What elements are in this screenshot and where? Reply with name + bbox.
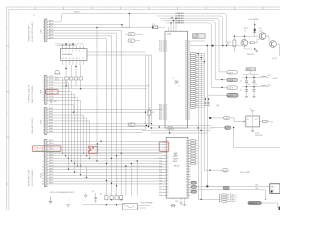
svg-text:R8: R8 [196, 57, 198, 59]
IC801 option star mark [173, 78, 181, 88]
resistor array column right of IC801 [191, 53, 205, 109]
svg-text:56: 56 [186, 171, 188, 173]
IC802 body [166, 137, 188, 198]
svg-text:88: 88 [185, 51, 187, 53]
svg-text:4.7k: 4.7k [152, 24, 155, 26]
svg-text:12: 12 [166, 113, 168, 115]
svg-text:88: 88 [185, 57, 187, 59]
svg-text:(C-05): (C-05) [272, 58, 277, 60]
capacitor C102 vertical with plates [253, 74, 256, 90]
svg-text:R3: R3 [100, 194, 102, 196]
wires center verticals to bottom block [126, 161, 137, 196]
svg-text:31: 31 [167, 164, 169, 166]
wire from block down with arrow [265, 190, 266, 201]
svg-text:5: 5 [43, 33, 44, 35]
svg-text:V.OUT: V.OUT [49, 90, 54, 92]
IC802 internal label [173, 156, 180, 168]
svg-text:RGB.I: RGB.I [49, 117, 54, 119]
svg-text:31: 31 [167, 192, 169, 194]
svg-text:FL: FL [133, 207, 135, 209]
svg-text:P10: P10 [159, 49, 162, 51]
svg-text:56: 56 [186, 166, 188, 168]
svg-text:31: 31 [167, 161, 169, 163]
svg-text:D11: D11 [259, 28, 262, 30]
svg-text:P10: P10 [159, 47, 162, 49]
svg-text:38024: 38024 [173, 161, 178, 163]
svg-text:8: 8 [43, 129, 44, 131]
IC801 body [165, 31, 188, 128]
svg-text:12: 12 [166, 107, 168, 109]
bottom block text labels [92, 191, 116, 196]
voltage regulator IC101 box [246, 116, 259, 127]
junction dots bottom block [106, 199, 122, 205]
svg-text:12: 12 [166, 105, 168, 107]
svg-text:V.OUT: V.OUT [49, 76, 54, 78]
svg-text:10k: 10k [227, 44, 230, 46]
bottom block resistor boxes row [105, 196, 123, 200]
svg-text:2: 2 [43, 24, 44, 26]
svg-text:56: 56 [186, 195, 188, 197]
wires IC600 right to center verticals [87, 51, 146, 53]
crystal circuit below IC802 [170, 204, 176, 206]
bottom block horizontal wire [83, 204, 126, 206]
svg-text:56: 56 [186, 184, 188, 186]
svg-text:88: 88 [185, 61, 187, 63]
svg-text:56: 56 [186, 174, 188, 176]
dark wire-to label bar [248, 202, 278, 209]
svg-text:88: 88 [185, 47, 187, 49]
resistor R104 vertical [227, 36, 236, 52]
svg-text:R8: R8 [196, 81, 198, 83]
svg-text:V.OUT: V.OUT [49, 99, 54, 101]
svg-text:1k: 1k [244, 30, 246, 32]
svg-text:10: 10 [42, 167, 44, 169]
IC801 internal pin numbers right column [185, 41, 187, 121]
svg-text:DWG 2: DWG 2 [193, 37, 199, 39]
pill connector C-05 row1 [219, 71, 237, 75]
svg-text:IC101: IC101 [255, 133, 259, 135]
svg-text:V.OUT: V.OUT [49, 96, 54, 98]
svg-text:2: 2 [43, 112, 44, 114]
svg-text:6: 6 [79, 50, 80, 52]
svg-text:F: F [110, 194, 111, 196]
diode D11 label [259, 28, 263, 32]
svg-text:88: 88 [185, 119, 187, 121]
red highlight box center [89, 146, 98, 153]
svg-text:88: 88 [185, 43, 187, 45]
svg-text:E: E [115, 194, 116, 196]
svg-text:3: 3 [43, 147, 44, 149]
svg-text:31: 31 [167, 186, 169, 188]
svg-text:R8: R8 [196, 69, 198, 71]
svg-text:(155): (155) [259, 30, 263, 32]
svg-text:88: 88 [185, 59, 187, 61]
wires CN9 long horizontals to center [49, 108, 163, 110]
svg-text:31: 31 [167, 181, 169, 183]
svg-text:88: 88 [185, 109, 187, 111]
svg-text:31: 31 [167, 175, 169, 177]
svg-text:12: 12 [166, 111, 168, 113]
svg-text:88: 88 [185, 49, 187, 51]
svg-text:IC801: IC801 [167, 34, 171, 36]
ground symbols filter area [245, 97, 255, 98]
svg-text:2SD2444: 2SD2444 [247, 54, 254, 56]
svg-text:11: 11 [72, 58, 74, 60]
svg-text:12: 12 [166, 119, 168, 121]
bottom block ground and plus symbols [84, 193, 87, 202]
svg-text:88: 88 [185, 67, 187, 69]
svg-text:HD64F: HD64F [173, 159, 178, 161]
wire IC801 top pin stubs to rails [168, 27, 170, 31]
connector CN9 pins and labels [43, 108, 54, 134]
svg-text:56: 56 [186, 143, 188, 145]
svg-text:88: 88 [185, 53, 187, 55]
IC802 bottom pin wires and ground [175, 198, 186, 206]
wires transistor bias network [234, 36, 280, 57]
svg-text:IN: IN [247, 119, 249, 121]
svg-text:(2SD1225): (2SD1225) [255, 135, 263, 137]
pill connector C-08 [204, 169, 228, 173]
wires CN9 pins staircase to bus [49, 115, 91, 159]
dark junction square on pin row 2 [212, 45, 214, 47]
junction dots on pin2 net [152, 27, 153, 28]
inductor L101 [261, 75, 271, 77]
svg-text:31: 31 [167, 167, 169, 169]
svg-text:KS0: KS0 [159, 186, 162, 188]
svg-text:88: 88 [185, 69, 187, 71]
svg-text:88: 88 [185, 107, 187, 109]
svg-text:11: 11 [42, 170, 44, 172]
svg-text:5V: 5V [250, 108, 252, 110]
capacitor pair to ground below bus [204, 98, 210, 106]
svg-text:56: 56 [186, 145, 188, 147]
svg-text:R8: R8 [196, 93, 198, 95]
svg-text:OUT: OUT [255, 119, 258, 121]
svg-text:9: 9 [79, 58, 80, 60]
svg-text:15: 15 [42, 181, 44, 183]
wire top rail 4 with corner down [163, 21, 215, 80]
drawing border outer frame [7, 7, 281, 210]
svg-text:88: 88 [185, 91, 187, 93]
resistor array row R611-R614 [65, 77, 83, 80]
filter wires horizontals [243, 74, 262, 87]
svg-text:KS0: KS0 [159, 189, 162, 191]
svg-text:(+B DOME): (+B DOME) [249, 19, 259, 21]
connector CN10 body [44, 140, 47, 187]
diode D11 [253, 30, 256, 33]
connector ref text right edge [272, 58, 278, 80]
svg-text:R8: R8 [196, 53, 198, 55]
svg-text:C-06: C-06 [224, 118, 228, 120]
wire CN6 pin2 to resistor R106 net [49, 25, 151, 28]
pill connector C-09 hatched [208, 186, 229, 190]
IC802 left pin stubs and labels [163, 141, 169, 197]
svg-text:R8: R8 [196, 101, 198, 103]
svg-text:NOTE: WITH NAVIGATION SYS: NOTE: WITH NAVIGATION SYS [50, 191, 75, 194]
wires from filter box right [138, 205, 151, 207]
svg-text:P10: P10 [159, 43, 162, 45]
svg-text:14: 14 [62, 58, 64, 60]
ground symbol below CN10 [49, 197, 53, 204]
IC802 left outside labels [159, 158, 162, 197]
wires CN10 pins to IC801 left pins [49, 142, 163, 153]
svg-text:88: 88 [185, 101, 187, 103]
svg-text:56: 56 [186, 140, 188, 142]
svg-text:3: 3 [43, 83, 44, 85]
svg-text:1: 1 [43, 141, 44, 143]
svg-text:88: 88 [185, 73, 187, 75]
svg-text:KS0: KS0 [159, 184, 162, 186]
wire IC801 first right pin to reference box [190, 40, 205, 42]
svg-text:13: 13 [65, 58, 67, 60]
IC600 top pin stubs [63, 46, 84, 49]
svg-text:WIRE TO W: WIRE TO W [249, 203, 258, 205]
wire IC801 pin row 2 to transistor circuit [190, 45, 241, 47]
wire CN6 pin6 bend down long vertical [49, 36, 112, 196]
svg-text:12: 12 [166, 115, 168, 117]
svg-text:12: 12 [166, 109, 168, 111]
resistor R105 label [244, 28, 248, 32]
svg-text:56: 56 [186, 192, 188, 194]
svg-text:8: 8 [43, 97, 44, 99]
red highlight box on CN10 pins [32, 146, 61, 152]
connector CN10 pins and labels [42, 140, 54, 186]
svg-text:56: 56 [186, 151, 188, 153]
svg-text:KS0: KS0 [159, 172, 162, 174]
pill connector ref left of IC801 row2 [128, 39, 140, 42]
capacitor C101 vertical with plates [245, 74, 248, 90]
ground symbol small left [67, 205, 71, 208]
drawing border inner frame [9, 9, 280, 210]
svg-text:2: 2 [43, 80, 44, 82]
svg-text:C-05 4: C-05 4 [228, 95, 233, 97]
wire top rail branch down at x129 [128, 14, 130, 29]
svg-text:4: 4 [43, 118, 44, 120]
svg-text:C-08: C-08 [223, 170, 227, 172]
svg-text:P10: P10 [159, 51, 162, 53]
junction dots near center red box [92, 147, 93, 148]
connector CN8 pins and labels [43, 76, 53, 102]
svg-text:R8: R8 [196, 97, 198, 99]
svg-text:3: 3 [69, 50, 70, 52]
svg-text:88: 88 [185, 83, 187, 85]
connector reference label box C-05 DWG [193, 34, 206, 39]
svg-text:R8: R8 [196, 65, 198, 67]
wires CN8 pins to lower bus staircase [49, 77, 82, 167]
svg-text:RGB.I: RGB.I [49, 125, 54, 127]
IC600 body [61, 49, 88, 61]
svg-text:RGB.I: RGB.I [49, 111, 54, 113]
resistor row labels [55, 77, 59, 81]
svg-text:(+B): (+B) [216, 105, 220, 107]
wire center vertical 1 [145, 55, 147, 130]
junction dots filter area [246, 77, 255, 88]
svg-text:56: 56 [186, 161, 188, 163]
transistor Q102 [241, 39, 248, 46]
svg-text:KS0: KS0 [159, 167, 162, 169]
IC801 bottom pin wires [169, 128, 171, 133]
capacitor C103 lower plates [245, 90, 248, 97]
svg-text:7: 7 [43, 94, 44, 96]
inductor L102 [261, 84, 271, 86]
svg-text:88: 88 [185, 55, 187, 57]
svg-text:CONTROL VIDEO IN: CONTROL VIDEO IN [29, 84, 31, 103]
connector CN6 pins and pin labels [43, 20, 53, 41]
svg-text:L102: L102 [268, 84, 272, 86]
wires CN8 long pins to center verticals [49, 85, 150, 87]
IC600 bottom pin wires [63, 60, 84, 65]
svg-text:56: 56 [186, 179, 188, 181]
svg-text:K: K [105, 194, 106, 196]
svg-text:31: 31 [167, 144, 169, 146]
svg-text:88: 88 [185, 105, 187, 107]
svg-text:C-09: C-09 [224, 188, 228, 190]
svg-text:31: 31 [167, 184, 169, 186]
wires CN10 lower pins long horizontals [49, 167, 163, 184]
svg-text:12: 12 [166, 49, 168, 51]
wire center vertical 3 [151, 55, 153, 124]
svg-text:12: 12 [166, 43, 168, 45]
svg-text:31: 31 [167, 195, 169, 197]
svg-text:56: 56 [186, 187, 188, 189]
svg-text:88: 88 [185, 87, 187, 89]
wires IC802 right to bottom-right block [191, 185, 270, 187]
capacitor C104 lower plates [253, 90, 256, 97]
junction dots on bus crossings [96, 153, 122, 165]
svg-text:KS0: KS0 [159, 195, 162, 197]
svg-text:31: 31 [167, 172, 169, 174]
svg-text:IC802: IC802 [173, 156, 178, 158]
svg-text:14: 14 [42, 178, 44, 180]
pill connector ref left of IC801 row1 [125, 33, 143, 36]
wire CN6 pin3 long horizontal [49, 27, 97, 29]
wire center vertical 2 [148, 55, 150, 127]
pill connector ref mid left [128, 123, 135, 127]
svg-text:6: 6 [43, 36, 44, 38]
svg-text:RGB.I: RGB.I [49, 120, 54, 122]
wire +B to Q101 collector [254, 33, 256, 36]
svg-text:R8: R8 [196, 73, 198, 75]
junction block box bottom right [270, 184, 280, 194]
svg-text:8: 8 [43, 161, 44, 163]
IC801 internal pin numbers left column [166, 41, 168, 121]
svg-text:88: 88 [185, 113, 187, 115]
small box at IC801 bottom corner [168, 127, 172, 129]
IC801 left pin stubs bottom group [159, 104, 165, 121]
svg-text:L101: L101 [268, 75, 272, 77]
bottom right corner mark [279, 207, 280, 211]
wire bus to pill C-06 [211, 117, 223, 119]
svg-text:5 DVD-C/CB: 5 DVD-C/CB [34, 150, 43, 152]
svg-text:(NAVI SYSTEM AND): (NAVI SYSTEM AND) [31, 85, 34, 103]
svg-text:88: 88 [185, 63, 187, 65]
wire +B DOME down [254, 21, 256, 33]
bus horizontal lines lower left [49, 153, 163, 166]
svg-text:X801: X801 [175, 201, 179, 203]
svg-text:88: 88 [185, 45, 187, 47]
svg-text:4: 4 [72, 50, 73, 52]
svg-text:9: 9 [43, 164, 44, 166]
dark junction square lower bus [206, 185, 208, 187]
svg-text:(NAVI AND VIDEO): (NAVI AND VIDEO) [31, 117, 34, 133]
svg-text:C-11: C-11 [129, 40, 132, 42]
svg-text:56: 56 [186, 190, 188, 192]
svg-text:C-10: C-10 [129, 34, 133, 36]
svg-text:31: 31 [167, 189, 169, 191]
filter supply rail [250, 71, 252, 74]
wires from IC600 bottom to resistor row [65, 65, 67, 77]
transistor Q101 [259, 33, 266, 40]
svg-text:C-05 9: C-05 9 [228, 88, 233, 90]
wire pill to regulator [230, 118, 244, 122]
svg-text:7: 7 [83, 50, 84, 52]
svg-text:16: 16 [42, 184, 44, 186]
wire top rail 2 with corner down [157, 16, 223, 46]
junction dots between ICs [146, 125, 202, 134]
svg-text:5: 5 [43, 153, 44, 155]
wire CN6 pin5 bend down long vertical [49, 33, 117, 195]
svg-text:5: 5 [43, 89, 44, 91]
capacitor labels filter area [240, 81, 257, 92]
svg-text:1: 1 [43, 77, 44, 79]
svg-text:88: 88 [185, 99, 187, 101]
bus horizontal upper set from CN8 area [49, 86, 74, 112]
svg-text:C-05 2: C-05 2 [228, 72, 233, 74]
connector CN6 body [44, 19, 47, 41]
filter box bottom [123, 204, 138, 211]
svg-text:6: 6 [43, 155, 44, 157]
svg-text:5: 5 [43, 121, 44, 123]
svg-text:C-07: C-07 [225, 128, 229, 130]
svg-text:9: 9 [43, 100, 44, 102]
svg-text:88: 88 [185, 79, 187, 81]
zone numbers top margin [20, 8, 272, 10]
resistor boxes on IC802 right pins [191, 140, 198, 165]
svg-text:88: 88 [185, 41, 187, 43]
red highlight box on CN8 pin [46, 90, 59, 94]
svg-text:(GLASS PRINTED AND): (GLASS PRINTED AND) [31, 22, 34, 42]
svg-text:31: 31 [167, 155, 169, 157]
svg-text:88: 88 [185, 93, 187, 95]
svg-text:31: 31 [167, 169, 169, 171]
svg-text:R8: R8 [196, 85, 198, 87]
wire into bottom connector [198, 198, 219, 200]
svg-text:31: 31 [167, 152, 169, 154]
wires below resistor row to bus [67, 80, 81, 88]
svg-text:88: 88 [185, 95, 187, 97]
svg-text:8: 8 [83, 58, 84, 60]
wires staircase verticals lower [69, 158, 87, 177]
svg-text:56: 56 [186, 156, 188, 158]
svg-text:12: 12 [166, 45, 168, 47]
svg-text:RGB.I: RGB.I [49, 114, 54, 116]
wire into IC801 left mid with resistor [148, 107, 155, 126]
IC802 right pin stubs [186, 140, 191, 197]
svg-text:C-05 8: C-05 8 [228, 80, 233, 82]
svg-text:DOME INT: DOME INT [176, 23, 184, 25]
svg-text:R105: R105 [244, 28, 248, 30]
svg-text:2: 2 [65, 50, 66, 52]
svg-text:R821: R821 [151, 112, 155, 114]
svg-text:12: 12 [42, 172, 44, 174]
svg-text:88: 88 [185, 81, 187, 83]
red highlight box on IC802 left pins [159, 142, 169, 151]
net name labels on top rails [176, 13, 184, 24]
wire vertical drop from pin3 node down to bus [96, 28, 98, 162]
svg-text:V.OUT: V.OUT [49, 79, 54, 81]
svg-text:M/CON: M/CON [174, 166, 180, 168]
long wire from C-07 down and right [234, 128, 280, 148]
